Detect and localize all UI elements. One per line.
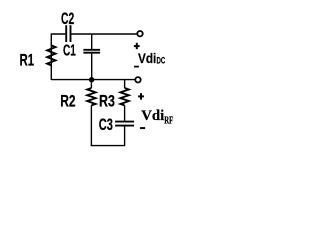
svg-text:C3: C3 xyxy=(99,116,113,134)
svg-text:R3: R3 xyxy=(99,93,115,111)
svg-text:RF: RF xyxy=(164,116,173,127)
svg-text:DC: DC xyxy=(157,56,166,66)
svg-text:R2: R2 xyxy=(60,93,75,111)
svg-text:R1: R1 xyxy=(20,51,35,69)
svg-text:Vdi: Vdi xyxy=(141,107,164,124)
svg-text:C1: C1 xyxy=(63,42,76,59)
svg-text:Vdi: Vdi xyxy=(138,50,156,66)
svg-text:C2: C2 xyxy=(61,10,74,28)
